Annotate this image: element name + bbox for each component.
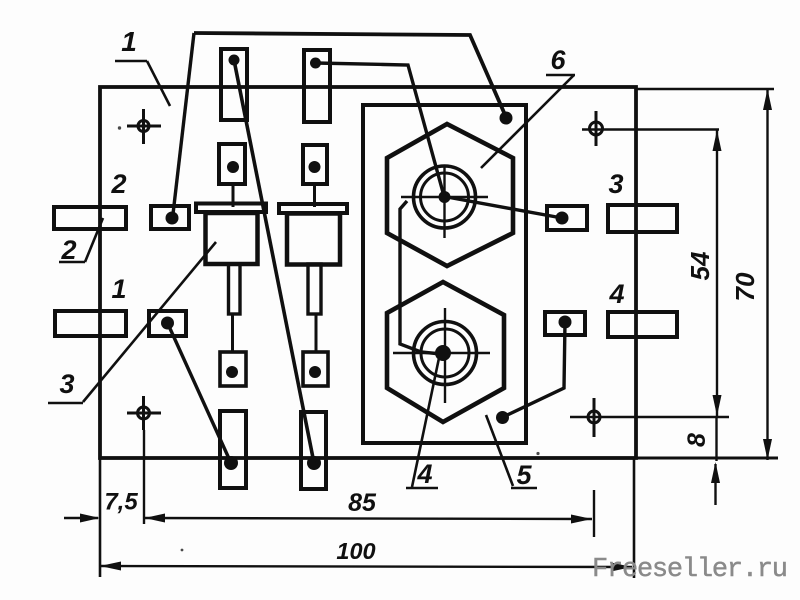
wire top [194, 33, 506, 117]
svg-text:7,5: 7,5 [104, 489, 138, 516]
dimension 85 line [145, 514, 593, 524]
terminal 3 right upper [608, 205, 677, 232]
dimension 8 arrow [711, 462, 720, 505]
rivet dot below transistor 2 [309, 366, 321, 378]
pad below transistor 1 [220, 352, 246, 386]
link screw top to right pad [447, 197, 562, 218]
rivet dot right pad lower [559, 316, 572, 329]
heat sink plate [363, 105, 526, 443]
board right edge extension down [633, 458, 636, 578]
screw head bottom inner circle [421, 329, 469, 377]
transistor Q1 body [206, 213, 258, 264]
svg-text:70: 70 [730, 272, 760, 301]
callout 5 leader [486, 415, 537, 488]
nut hexagon bottom [387, 282, 504, 422]
transistor Q2 lead [308, 264, 321, 314]
pad right of terminal 1 [149, 311, 186, 336]
svg-text:54: 54 [685, 251, 715, 280]
callout 4 leader [406, 358, 439, 488]
extension line 85 right [593, 490, 595, 537]
trace between screws [400, 201, 441, 354]
board dot near hexagon [496, 411, 509, 424]
dimension 100 line [100, 562, 632, 572]
link lug top2 to screw top [316, 63, 445, 196]
rivet dot pad 2 [309, 161, 321, 173]
terminal 4 right lower [608, 312, 677, 337]
link left lower pad to lug bottom1 [168, 323, 232, 463]
transistor Q1 flange [196, 204, 266, 213]
wire end dot [500, 112, 513, 125]
svg-text:8: 8 [683, 433, 711, 447]
top edge extension line [637, 88, 774, 91]
screw top center dot [439, 191, 451, 203]
svg-text:100: 100 [336, 538, 375, 564]
rivet dot pad 1 [227, 161, 239, 173]
extension line 54 top [582, 128, 719, 130]
screw head bottom outer circle [414, 322, 477, 385]
svg-text:1: 1 [111, 274, 126, 304]
dimension 54 line [713, 130, 722, 461]
mounting hole top-left [127, 109, 161, 144]
link lug top1 to lug bottom2 [234, 60, 314, 463]
solder lug bottom 2 [301, 412, 326, 489]
transistor Q2 flange [279, 204, 347, 213]
svg-text:5: 5 [516, 460, 532, 490]
svg-text:2: 2 [60, 235, 76, 265]
transistor Q2 body [287, 214, 340, 265]
scan speck near top-left hole [118, 126, 121, 129]
rivet dot in lug top 2 [310, 58, 321, 69]
rivet dot left pad lower [161, 317, 174, 330]
screw head top outer circle [414, 166, 476, 228]
callout 3 leader [48, 242, 216, 403]
rivet dot in lug bottom 1 [224, 456, 238, 470]
rivet dot below transistor 1 [226, 366, 238, 378]
rivet dot left pad upper [166, 212, 179, 225]
svg-text:3: 3 [59, 369, 74, 399]
svg-text:Freeseller.ru: Freeseller.ru [592, 555, 788, 585]
screw top crosshair [401, 165, 488, 238]
svg-text:2: 2 [110, 169, 126, 199]
pad left of terminal 4 [545, 312, 585, 335]
rivet dot right pad upper [556, 212, 569, 225]
svg-text:6: 6 [550, 45, 566, 75]
solder lug bottom 1 [220, 411, 246, 488]
extension line 8 [570, 416, 729, 418]
svg-text:1: 1 [121, 26, 137, 57]
rivet dot in lug bottom 2 [307, 456, 321, 470]
mounting hole bottom-right [588, 398, 600, 437]
link right lower pad to board dot [503, 322, 565, 417]
svg-text:85: 85 [348, 489, 377, 517]
left edge extension line [99, 458, 102, 577]
pad above transistor 2 [303, 145, 327, 184]
svg-text:4: 4 [608, 279, 624, 309]
nut hexagon top [387, 124, 513, 266]
screw head top inner circle [421, 173, 469, 221]
callout 1 leader [115, 61, 170, 106]
callout 2 leader [59, 218, 103, 262]
pad left of terminal 3 [547, 206, 587, 230]
dimension 70 line [763, 89, 772, 460]
screw bottom crosshair [393, 308, 490, 403]
solder lug top 1 [221, 49, 247, 120]
transistor Q1 lead [229, 264, 241, 314]
scan speck bottom area [181, 549, 184, 552]
board outline [100, 87, 636, 458]
wire drop to left pad [173, 33, 194, 218]
bottom edge extension line [636, 457, 778, 460]
lead pad2 to transistor2 [313, 184, 316, 207]
callout 6 leader [481, 75, 575, 168]
pad above transistor 1 [219, 144, 245, 184]
mounting hole top-right [590, 111, 603, 146]
scan speck near board bottom edge [536, 452, 539, 455]
mounting hole bottom-left [127, 396, 161, 430]
svg-text:3: 3 [608, 169, 623, 199]
solder lug top 2 [304, 50, 330, 122]
dimension 7.5 arrow [64, 514, 100, 523]
transistor Q1 lead wire [231, 314, 234, 352]
pad right of terminal 2 [151, 206, 189, 229]
extension line 7.5 [143, 430, 145, 524]
terminal 1 left lower [55, 311, 126, 336]
svg-text:4: 4 [416, 459, 432, 489]
pad below transistor 2 [303, 352, 328, 386]
transistor Q2 lead wire [315, 314, 318, 352]
screw bottom center dot [435, 345, 451, 361]
lead pad1 to transistor1 [232, 184, 235, 207]
rivet dot in lug top 1 [229, 55, 240, 66]
terminal 2 left upper [54, 207, 126, 229]
